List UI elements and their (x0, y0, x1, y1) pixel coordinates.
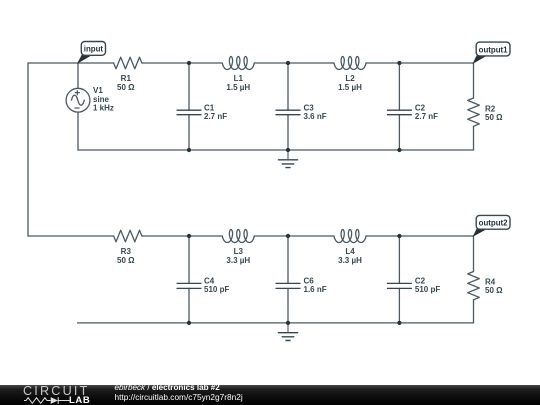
svg-text:L4: L4 (345, 247, 355, 256)
svg-text:output1: output1 (479, 45, 509, 54)
svg-text:50 Ω: 50 Ω (117, 256, 135, 265)
logo diode (58, 397, 70, 404)
wire R2 leads (473, 63, 475, 150)
wire C3 branch leads (287, 63, 289, 150)
wire V1 leads (77, 63, 79, 150)
node dot (399.4,150) (397, 148, 401, 152)
svg-text:1.6 nF: 1.6 nF (304, 285, 327, 294)
resistor R4 body (468, 272, 480, 300)
svg-text:sine: sine (93, 95, 110, 104)
svg-text:output2: output2 (479, 219, 509, 228)
svg-text:1 kHz: 1 kHz (93, 104, 114, 113)
svg-text:3.3 µH: 3.3 µH (226, 256, 250, 265)
capacitor C3 plates (276, 110, 301, 115)
node dot (288,236) (286, 234, 290, 238)
node dot (189,150) (187, 148, 191, 152)
capacitor C6 plates (276, 283, 301, 288)
svg-text:C2: C2 (415, 103, 426, 112)
net flag output2 box (474, 228, 489, 236)
svg-text:L1: L1 (234, 74, 244, 83)
wire bottom rail (circuit 2) (78, 322, 474, 324)
logo zigzag resistor (24, 397, 51, 403)
svg-text:R2: R2 (485, 104, 496, 113)
svg-text:C4: C4 (204, 276, 215, 285)
V1 minus sign (75, 107, 80, 109)
wire C4 branch leads (188, 236, 190, 323)
svg-text:510 pF: 510 pF (204, 285, 229, 294)
svg-text:C2: C2 (415, 276, 426, 285)
footer credit line (115, 386, 243, 402)
svg-text:R4: R4 (485, 277, 496, 286)
V1 sine waveform (72, 95, 85, 105)
capacitor C2 (bottom) plates (387, 283, 412, 288)
capacitor C1 plates (177, 110, 202, 115)
svg-text:50 Ω: 50 Ω (485, 286, 503, 295)
wire R4 leads (473, 236, 475, 323)
resistor R2 body (468, 98, 480, 126)
node dot (189,322.9) (187, 321, 191, 325)
svg-text:L3: L3 (234, 247, 244, 256)
node dot (288,63) (286, 61, 290, 65)
inductor L1 coil (222, 57, 254, 70)
wire left vertical bus from input to circuit 2 (27, 63, 29, 236)
net flag input box (78, 54, 93, 63)
inductor L4 coil (334, 230, 366, 243)
svg-text:1.5 µH: 1.5 µH (338, 83, 362, 92)
V1 plus sign (75, 90, 80, 95)
wire bottom rail (circuit 1) (78, 149, 474, 151)
capacitor C2 plates (387, 110, 412, 115)
svg-text:1.5 µH: 1.5 µH (226, 83, 250, 92)
svg-text:V1: V1 (93, 86, 103, 95)
wire C1 branch leads (188, 63, 190, 150)
node dot (399.4,236) (397, 234, 401, 238)
node dot (399.4,322.9) (397, 321, 401, 325)
svg-text:C6: C6 (304, 276, 315, 285)
inductor L3 coil (222, 230, 254, 243)
node dot (189,63) (187, 61, 191, 65)
ground (278, 323, 298, 341)
CircuitLab logo text LAB (69, 395, 90, 405)
svg-text:50 Ω: 50 Ω (485, 113, 503, 122)
node dot (288,150) (286, 148, 290, 152)
capacitor C4 plates (177, 283, 202, 288)
node dot (399.4,63) (397, 61, 401, 65)
net flag output1 box (474, 54, 489, 62)
wire C2 branch leads (398, 63, 400, 150)
resistor R3 body (114, 230, 142, 242)
wire C2b branch leads (398, 236, 400, 323)
node dot (288,322.9) (286, 321, 290, 325)
wire top rail segments (circuit 2) (28, 235, 474, 237)
svg-text:R1: R1 (121, 74, 132, 83)
CircuitLab logo text CIRCUIT (23, 384, 89, 398)
svg-text:C3: C3 (304, 103, 315, 112)
wire C6 branch leads (287, 236, 289, 323)
inductor L2 coil (334, 57, 366, 70)
ground (278, 150, 298, 168)
svg-text:R3: R3 (121, 247, 132, 256)
resistor R1 body (114, 57, 142, 69)
voltage source V1 circle (66, 88, 90, 112)
node dot (189,236) (187, 234, 191, 238)
svg-text:L2: L2 (345, 74, 355, 83)
svg-text:3.6 nF: 3.6 nF (304, 112, 327, 121)
svg-text:2.7 nF: 2.7 nF (415, 112, 438, 121)
logo resistor-diode art (22, 396, 72, 405)
svg-text:input: input (84, 45, 104, 54)
svg-text:50 Ω: 50 Ω (117, 83, 135, 92)
svg-text:2.7 nF: 2.7 nF (204, 112, 227, 121)
footer bar (0, 385, 540, 405)
svg-text:3.3 µH: 3.3 µH (338, 256, 362, 265)
wire top rail segments (circuit 1) (28, 62, 474, 64)
svg-text:510 pF: 510 pF (415, 285, 440, 294)
svg-text:C1: C1 (204, 103, 215, 112)
